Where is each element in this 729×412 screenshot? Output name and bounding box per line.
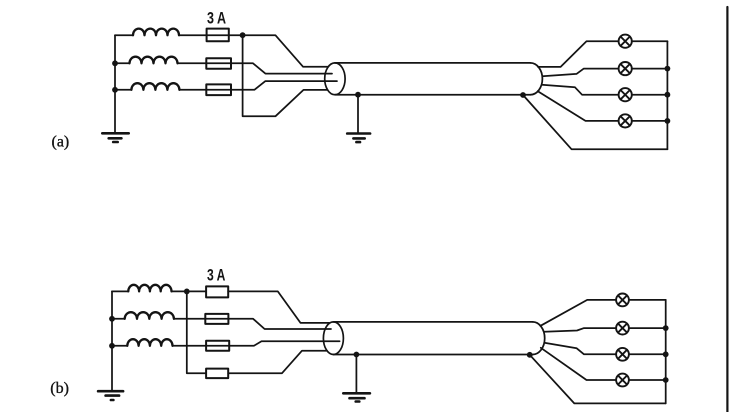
junction dot: sheath earth connection (a): [355, 92, 361, 98]
cable sheath top line (b): [333, 321, 532, 323]
lamp X3 (a): [619, 88, 632, 101]
wire: core 1 fan-out to lamp 5 (b): [541, 300, 617, 326]
wire: lamp 8 to return bus (b): [629, 379, 666, 381]
junction dot: bus at lamp 4 (a): [665, 118, 671, 124]
junction dot: phase 3 tap on bus (b): [109, 343, 115, 349]
cable end face ellipse (a): [325, 63, 345, 95]
wire: lamp 5 to return bus (b): [629, 299, 666, 301]
junction dot: bus at lamp 6 (b): [663, 325, 669, 331]
wire: core 3 fan-out to lamp 7 (b): [544, 343, 616, 355]
inductor L3: secondary winding phase 3 (a): [131, 83, 179, 90]
wire: core 2 fan-out to lamp 2 (a): [542, 69, 618, 77]
wire: lamp 4 to return bus (a): [632, 120, 668, 122]
lamp X8 (b): [616, 374, 629, 387]
fuse F4 3A (b): [206, 286, 228, 297]
wire: sheath earth drop (b): [355, 355, 357, 393]
lamp X1 (a): [619, 35, 632, 48]
junction dot: neutral bus tap on phase 1 row (b): [184, 289, 190, 295]
inductor L5: secondary winding phase 2 (b): [125, 312, 174, 319]
wire: neutral bus vertical down to fuse F7 (b): [187, 291, 206, 373]
wire: core 1 from fuse node into cable entry funnel (a): [243, 35, 329, 66]
wire: core 1 fan-out to lamp 1 (a): [538, 41, 619, 67]
svg-text:(b): (b): [50, 380, 69, 397]
ground: earth symbol under supply bus (b): [98, 391, 123, 400]
svg-text:3 A: 3 A: [207, 266, 225, 285]
junction dot: sheath return tap (a): [520, 92, 526, 98]
page edge scan line at right: [726, 7, 728, 412]
ground: earth symbol under supply bus (a): [102, 133, 128, 142]
wire: coil L1 to junction through fuse F1 (a): [179, 34, 243, 36]
fuse F2 (a): [206, 58, 231, 68]
junction dot: phase 2 tap on bus (b): [109, 316, 115, 322]
svg-text:(a): (a): [52, 134, 70, 151]
wire: lamp 7 to return bus (b): [629, 353, 666, 355]
inductor L6: secondary winding phase 3 (b): [127, 339, 172, 346]
wire: sheath feed from fuse node around bottom into cable (a): [243, 35, 328, 116]
inductor L2: secondary winding phase 2 (a): [130, 57, 178, 64]
wire: phase 3 row (a): [115, 89, 131, 91]
wire: core 3 from coil through fuse F3 into cable (a): [180, 81, 338, 90]
fuse F7 (b): [206, 369, 228, 379]
junction dot: sheath return tap (b): [527, 352, 533, 358]
fuse F6 (b): [206, 341, 229, 351]
lamp X5 (b): [616, 294, 629, 307]
wire: phase 2 row (b): [112, 318, 125, 320]
wire: phase 2 row (a): [115, 62, 130, 64]
wire: core 2 fan-out to lamp 6 (b): [544, 328, 616, 332]
wire: left supply bus vertical (b): [111, 291, 113, 390]
wire: core 4 fan-out to lamp 4 (a): [538, 91, 619, 121]
inductor L4: secondary winding phase 1 (b): [128, 285, 171, 292]
cable sheath bottom line (b): [333, 354, 532, 356]
junction dot: bus at lamp 8 (b): [663, 377, 669, 383]
wire: lamp 6 to return bus (b): [629, 327, 666, 329]
wire: left supply bus vertical (a): [114, 35, 116, 132]
wire: lamp 2 to return bus (a): [632, 68, 668, 70]
cable sheath bottom line (a): [335, 94, 531, 96]
junction dot: phase 3 tap on bus (a): [112, 87, 118, 93]
cable sheath right end cap (a): [530, 63, 542, 95]
wire: lamp return bus vertical (b): [665, 300, 667, 404]
inductor L1: secondary winding phase 1 (a): [133, 29, 179, 36]
wire: phase 3 row (b): [112, 345, 127, 347]
wire: phase 1 row (b): [112, 290, 128, 292]
junction dot: node after fuse F1 (a): [240, 32, 246, 38]
wire: core 4 from fuse F7 into cable entry funnel (b): [228, 351, 327, 374]
wire: core 3 from coil through fuse F6 into cable (b): [173, 341, 340, 346]
wire: phase 1 row (a) from bus to fuse F1: [115, 34, 133, 36]
wire: core 2 from coil through fuse F2 into cable (a): [178, 63, 333, 73]
wire: lamp return bus vertical (a): [666, 41, 668, 149]
wire: lamp 1 to return bus (a): [632, 40, 668, 42]
lamp X4 (a): [619, 114, 632, 127]
cable sheath right end cap (b): [533, 322, 545, 355]
lamp X2 (a): [619, 62, 632, 75]
cable sheath top line (a): [335, 62, 531, 64]
wire: core 3 fan-out to lamp 3 (a): [542, 85, 619, 95]
junction dot: bus at lamp 3 (a): [665, 92, 671, 98]
ground: earth symbol under cable (a): [347, 134, 370, 143]
wire: core 1 from fuse F4 into cable entry funnel (b): [228, 291, 329, 323]
junction dot: bus at lamp 7 (b): [663, 351, 669, 357]
wire: core 4 fan-out to lamp 8 (b): [541, 348, 616, 380]
wire: sheath return to lamp bus (b): [530, 355, 666, 404]
wire: core 2 from coil through fuse F5 into cable (b): [174, 319, 331, 329]
ground: earth symbol under cable (b): [343, 393, 370, 401]
lamp X7 (b): [616, 348, 629, 361]
wire: coil to fuse F4 through neutral-bus node (b): [172, 290, 207, 292]
fuse F1 3A (a): [207, 29, 229, 42]
cable end face ellipse (b): [323, 322, 343, 355]
junction dot: sheath earth connection (b): [354, 352, 360, 358]
junction dot: phase 2 tap on bus (a): [112, 60, 118, 66]
fuse F5 (b): [205, 314, 228, 324]
junction dot: bus at lamp 2 (a): [665, 66, 671, 72]
lamp X6 (b): [616, 322, 629, 335]
wire: sheath return to lamp bus (a): [523, 95, 667, 149]
wire: lamp 3 to return bus (a): [632, 94, 668, 96]
fuse F3 (a): [206, 84, 231, 95]
svg-text:3 A: 3 A: [207, 9, 226, 28]
wire: sheath earth drop (a): [357, 95, 359, 133]
